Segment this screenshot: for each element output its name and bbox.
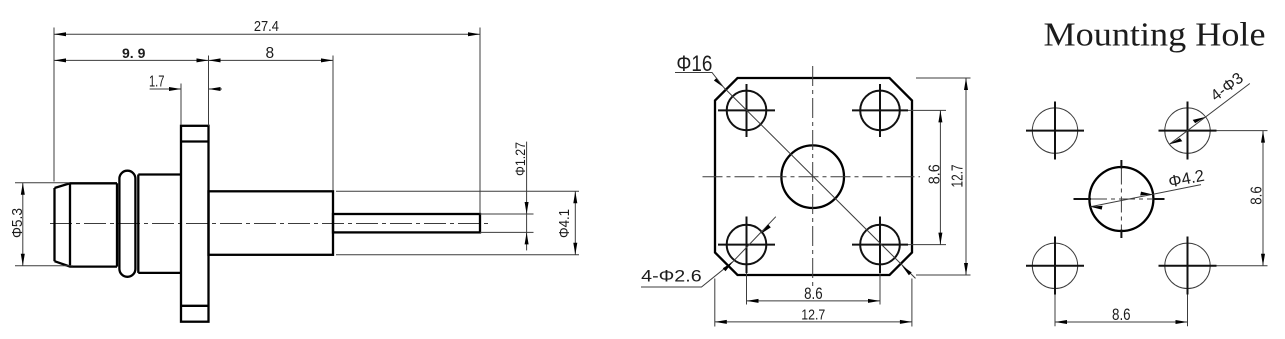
gasket ring capsule xyxy=(119,171,135,277)
4-phi2.6 underline and leader xyxy=(641,262,733,287)
dim 8.6 mh right arrow bottom xyxy=(1261,254,1265,266)
dim 12.7 bottom ext left xyxy=(714,279,716,327)
dim 8.6 mh bottom arrow left xyxy=(1055,320,1067,324)
crosshair top-right hole xyxy=(852,84,908,137)
crosshair mh bottom-right xyxy=(1159,237,1217,295)
svg-text:Φ4.1: Φ4.1 xyxy=(556,209,573,238)
mh hole top-left xyxy=(1032,108,1077,153)
dim phi4.1 arrow top xyxy=(573,191,577,203)
mh hole bottom-left xyxy=(1032,243,1077,288)
svg-text:Φ5.3: Φ5.3 xyxy=(9,208,26,238)
extension line x480 xyxy=(479,28,481,214)
dim phi4.1 ext top xyxy=(336,190,579,192)
crosshair mh top-right xyxy=(1159,102,1217,160)
4-phi3 arrow upper xyxy=(1193,117,1206,123)
nose plug body xyxy=(55,183,118,266)
extension line left x54 xyxy=(53,28,55,182)
dim 1.7 arrow right outside xyxy=(209,87,221,91)
phi16 underline and leader xyxy=(675,73,724,88)
dim 1.7 line left part xyxy=(150,88,181,90)
centerline axis xyxy=(50,223,492,225)
dim 8.6 mh right ext top xyxy=(1217,130,1268,132)
dim 8 line xyxy=(209,59,334,61)
mh hole bottom-right xyxy=(1165,243,1210,288)
dim 8.6 mh right line xyxy=(1262,131,1264,266)
dim phi5.3 arrow bottom xyxy=(21,254,25,266)
dim phi1.27 ext top xyxy=(480,213,534,215)
dim 1.7 line right part xyxy=(209,88,223,90)
dim 12.7 bottom ext right xyxy=(911,279,913,327)
4-phi3 dim line xyxy=(1169,84,1249,145)
phi16 arrow bottom-right xyxy=(902,266,912,276)
mounting hole top-right xyxy=(860,91,900,131)
dim 8.6 mh right arrow top xyxy=(1261,131,1265,143)
dim 9.9 arrow right xyxy=(197,58,209,62)
flange chamfer edge bottom xyxy=(181,305,209,307)
dim 8.6 mh bottom arrow right xyxy=(1176,320,1188,324)
dim 8.6 mh bottom line xyxy=(1055,321,1188,323)
dim 8.6 bottom ext left xyxy=(746,273,748,305)
extension line x181 flange left xyxy=(180,84,182,126)
mh center circle xyxy=(1089,167,1153,231)
svg-text:4-Φ2.6: 4-Φ2.6 xyxy=(641,267,702,286)
dim 12.7 bottom line xyxy=(715,321,912,323)
dim phi5.3 arrow top xyxy=(21,183,25,195)
extension line x333 xyxy=(332,56,334,191)
dim 9.9 line xyxy=(54,59,209,61)
dim 8.6 mh bottom ext left xyxy=(1054,295,1056,327)
dim phi4.1 line xyxy=(574,191,576,255)
svg-text:12.7: 12.7 xyxy=(950,165,967,188)
center line vertical xyxy=(812,66,814,287)
svg-text:8.6: 8.6 xyxy=(1249,186,1266,205)
4-phi3 arrow lower xyxy=(1169,138,1182,144)
dim 8.6 right arrow bottom xyxy=(938,233,942,245)
mounting hole bottom-left xyxy=(727,225,767,265)
crosshair bottom-right hole xyxy=(852,217,908,274)
4-phi2.6 arrow lower outside xyxy=(723,262,733,272)
dim 8.6 right ext bottom xyxy=(908,244,946,246)
flange octagon outline xyxy=(715,78,912,275)
center bore circle xyxy=(781,145,844,208)
mh hole top-right xyxy=(1165,108,1210,153)
dim 8.6 mh right ext bottom xyxy=(1217,265,1268,267)
center line horizontal xyxy=(703,176,921,178)
svg-text:12.7: 12.7 xyxy=(801,306,825,323)
dim 8.6 right line xyxy=(939,110,941,244)
flange side rectangle xyxy=(181,126,209,322)
svg-text:Φ1.27: Φ1.27 xyxy=(512,142,528,176)
svg-text:8: 8 xyxy=(265,45,274,62)
dim 1.7 arrow left outside xyxy=(169,87,181,91)
crosshair bottom-left hole xyxy=(718,217,775,274)
dim 12.7 right arrow bottom xyxy=(964,263,968,275)
dim 8.6 right (middle) ext top xyxy=(908,109,946,111)
dim 12.7 right ext top xyxy=(916,77,971,79)
phi4.2 arrow left xyxy=(1090,206,1102,210)
dim 12.7 right arrow top xyxy=(964,78,968,90)
dim 12.7 bottom arrow right xyxy=(900,320,912,324)
dim 8.6 mh bottom ext right xyxy=(1187,295,1189,327)
svg-text:1.7: 1.7 xyxy=(149,73,165,90)
extension line x208.5 xyxy=(208,56,210,126)
svg-text:9. 9: 9. 9 xyxy=(122,45,146,61)
dim phi1.27 line xyxy=(526,142,528,251)
crosshair mh top-left xyxy=(1026,102,1084,160)
center pin xyxy=(333,214,480,232)
dim 9.9 arrow left xyxy=(54,58,66,62)
svg-text:Mounting Hole: Mounting Hole xyxy=(1044,17,1266,54)
dim phi1.27 ext bottom xyxy=(480,231,534,233)
dim 8 arrow right xyxy=(321,58,333,62)
dim phi4.1 ext bottom xyxy=(336,254,579,256)
front body section xyxy=(138,175,181,273)
dim 8.6 bottom ext right xyxy=(879,273,881,305)
phi4.2 dim line xyxy=(1090,185,1201,207)
dim 12.7 right line xyxy=(965,78,967,275)
dim 8.6 bottom (middle) line xyxy=(747,300,881,302)
4-phi2.6 dim line through hole xyxy=(733,217,776,262)
phi16 arrow top-left xyxy=(714,78,724,88)
crosshair top-left hole xyxy=(718,84,775,137)
svg-text:27.4: 27.4 xyxy=(254,18,279,35)
mounting hole bottom-right xyxy=(860,225,900,265)
dim 12.7 bottom arrow left xyxy=(715,320,727,324)
mh center crosshair horizontal xyxy=(1074,198,1092,200)
dim phi1.27 arrow top outside xyxy=(525,202,529,214)
rear body tube xyxy=(209,191,334,255)
dim phi5.3 ext bottom xyxy=(15,265,73,267)
phi4.2 arrow right xyxy=(1140,192,1152,196)
4-phi2.6 arrow upper outside xyxy=(761,224,771,234)
dim 8 arrow left xyxy=(209,58,221,62)
dim 27.4 arrow left xyxy=(54,32,66,36)
dim 12.7 right ext bottom xyxy=(916,274,971,276)
dim 8.6 right arrow top xyxy=(938,110,942,122)
dim phi5.3 ext top xyxy=(15,182,70,184)
dim 8.6 bottom arrow right xyxy=(868,299,880,303)
dim phi1.27 arrow bottom outside xyxy=(525,232,529,244)
dim phi5.3 line xyxy=(22,183,24,266)
mh center crosshair vertical xyxy=(1120,160,1122,169)
svg-text:8.6: 8.6 xyxy=(1112,305,1131,324)
dim phi4.1 arrow bottom xyxy=(573,243,577,255)
crosshair mh bottom-left xyxy=(1026,237,1084,295)
svg-text:8.6: 8.6 xyxy=(804,284,823,303)
svg-text:8.6: 8.6 xyxy=(927,164,944,184)
mounting hole top-left xyxy=(727,91,767,131)
dim 27.4 arrow right xyxy=(468,32,480,36)
phi16 diagonal line xyxy=(724,88,916,279)
dim 27.4 line xyxy=(54,33,480,35)
flange chamfer edge top xyxy=(181,140,209,142)
dim 8.6 bottom arrow left xyxy=(747,299,759,303)
